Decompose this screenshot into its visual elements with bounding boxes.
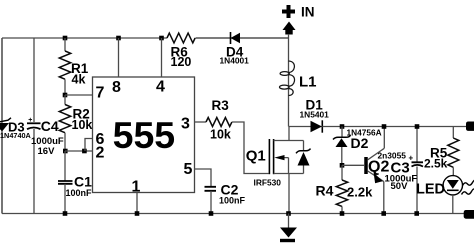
node C3 top [415, 124, 420, 129]
resistor R6 [167, 33, 195, 69]
wire C4 column vertical [33, 38, 35, 214]
diode D4 [196, 32, 289, 66]
svg-text:R4: R4 [316, 183, 334, 199]
zener D3 [0, 38, 32, 214]
node pins2/6 junction right [82, 149, 87, 154]
capacitor C1 [58, 151, 92, 214]
node OUT+ terminal [466, 122, 474, 131]
wire pin7 [65, 94, 93, 96]
node C pin4 top [159, 36, 164, 41]
svg-text:1N5401: 1N5401 [300, 109, 330, 119]
resistor R5 [424, 127, 459, 176]
resistor R2 [59, 95, 92, 151]
capacitor C2 [205, 182, 246, 214]
wire top rail [2, 37, 167, 39]
node B pin8 top [116, 36, 121, 41]
wire pin2 [65, 150, 93, 152]
resistor R1 [59, 38, 88, 95]
wire IN down [288, 34, 290, 127]
wire bottom rail [2, 213, 465, 215]
svg-text:100nF: 100nF [66, 188, 93, 198]
svg-text:L1: L1 [299, 74, 317, 91]
diode Q1 body [289, 141, 311, 174]
svg-text:LED: LED [416, 181, 445, 197]
svg-text:7: 7 [96, 85, 105, 102]
node C1 bottom [63, 211, 68, 216]
wire pin4 [161, 38, 163, 77]
svg-text:4k: 4k [72, 73, 86, 87]
svg-text:50V: 50V [391, 181, 409, 192]
node D2 top [340, 124, 345, 129]
svg-text:5: 5 [184, 161, 193, 178]
svg-text:120: 120 [171, 55, 192, 69]
svg-text:10k: 10k [72, 118, 93, 132]
svg-text:2: 2 [96, 145, 105, 162]
node Q2 collector top [382, 124, 387, 129]
node Q2 emitter bottom [381, 211, 386, 216]
capacitor C3 [385, 127, 424, 214]
svg-text:Q1: Q1 [246, 148, 266, 165]
svg-text:C4: C4 [41, 118, 59, 134]
svg-text:+: + [28, 117, 32, 124]
node R1/R2 junction [63, 93, 68, 98]
transistor Q1 MOSFET [246, 127, 289, 214]
svg-text:1: 1 [132, 179, 141, 196]
ground [280, 214, 297, 243]
svg-text:3: 3 [181, 116, 190, 133]
LED [416, 176, 474, 214]
node C3 bottom [414, 211, 419, 216]
node IN terminal [282, 5, 315, 35]
svg-text:1N4740A: 1N4740A [0, 131, 32, 140]
svg-text:10k: 10k [210, 128, 231, 142]
node OUT- terminal [464, 210, 474, 219]
wire top rail right of R6 [196, 37, 289, 39]
svg-text:8: 8 [112, 79, 121, 96]
node ground junction [286, 211, 291, 216]
svg-text:4: 4 [156, 79, 165, 96]
zener D2 [333, 127, 382, 166]
capacitor C4 [27, 117, 64, 157]
inductor L1 [280, 61, 317, 95]
svg-text:1N4756A: 1N4756A [347, 128, 382, 138]
svg-text:IN: IN [301, 5, 315, 20]
node R4 bottom [340, 211, 345, 216]
svg-text:555: 555 [113, 114, 176, 156]
svg-text:100nF: 100nF [219, 196, 246, 206]
wire pin6 stub [85, 139, 93, 152]
node pin1 bottom [135, 211, 140, 216]
node D2/R4/base junction [340, 163, 345, 168]
svg-text:2.2k: 2.2k [347, 185, 373, 200]
svg-text:1N4001: 1N4001 [220, 56, 250, 66]
wire pin8 [118, 38, 120, 77]
node pins2/6 junction left [63, 149, 68, 154]
op-amp U1 555 box [93, 77, 195, 196]
wire pin1 [136, 193, 138, 214]
resistor R3 [195, 98, 269, 174]
svg-text:R3: R3 [212, 98, 230, 113]
svg-text:IRF530: IRF530 [254, 178, 282, 188]
wire pin5 [195, 169, 212, 187]
transistor Q2 [342, 127, 406, 214]
node C2 bottom [209, 211, 214, 216]
svg-text:2.5k: 2.5k [424, 157, 448, 171]
diode D1 [289, 98, 467, 133]
svg-text:16V: 16V [38, 146, 56, 157]
wire left rail vertical [1, 38, 3, 214]
resistor R4 [316, 165, 374, 213]
node A top R1 [63, 36, 68, 41]
